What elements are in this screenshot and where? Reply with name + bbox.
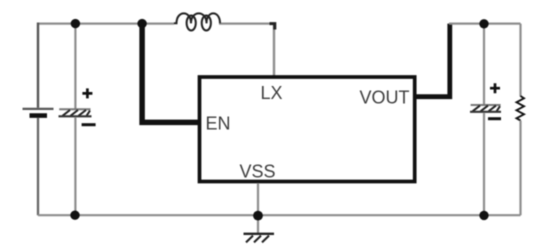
- wire right vertical lower: [519, 121, 521, 216]
- wire corner elbow at LX riser: [270, 24, 275, 30]
- battery BT1 long plate (+): [23, 108, 54, 110]
- ground hatches: [246, 236, 269, 243]
- wire LX riser: [273, 23, 275, 77]
- capacitor CL hatched plate: [473, 106, 501, 112]
- wire top rail left (VIN to inductor): [38, 23, 174, 25]
- wire EN thick (VIN to EN pin): [142, 25, 199, 122]
- svg-text:VSS: VSS: [240, 162, 276, 182]
- svg-text:EN: EN: [206, 114, 231, 134]
- node GND junction dot left: [70, 211, 79, 220]
- resistor RL zigzag: [517, 96, 525, 121]
- wire top rail right: [449, 23, 521, 25]
- wire inductor to LX corner: [219, 23, 275, 25]
- wire battery bottom lead: [37, 118, 39, 215]
- node GND junction dot right: [479, 211, 488, 220]
- battery BT1 short thick plate (-): [30, 113, 48, 118]
- wire output cap top lead: [483, 24, 485, 105]
- capacitor CL plus sign: [490, 83, 500, 93]
- capacitor CL minus sign: [488, 117, 501, 120]
- wire output cap bottom lead: [483, 113, 485, 216]
- wire VSS drop: [257, 183, 259, 233]
- inductor L1: [174, 13, 220, 30]
- ground bar: [244, 233, 275, 235]
- wire bottom rail: [38, 214, 521, 216]
- capacitor CIN bottom plate: [59, 115, 92, 117]
- node VIN junction dot at EN branch: [137, 19, 146, 28]
- node GND junction dot at VSS: [253, 211, 263, 221]
- capacitor CL bottom plate: [470, 111, 501, 113]
- wire input cap bottom lead: [74, 117, 76, 215]
- node VIN junction dot at battery/cap: [71, 19, 80, 28]
- svg-text:LX: LX: [261, 83, 283, 103]
- wire left vertical (battery top lead): [37, 23, 39, 108]
- wire input cap top lead: [74, 24, 76, 109]
- capacitor CIN hatched plate: [63, 110, 91, 116]
- wire right vertical upper (to resistor): [519, 24, 521, 97]
- node VOUT junction dot top: [479, 19, 488, 28]
- capacitor CL top plate: [471, 104, 501, 106]
- wire VOUT thick (VOUT pin to top rail): [414, 24, 450, 97]
- svg-text:VOUT: VOUT: [360, 88, 410, 108]
- capacitor CIN top plate: [59, 108, 90, 110]
- capacitor CIN plus sign: [82, 88, 92, 98]
- op-amp U1 block outline: [200, 77, 415, 182]
- capacitor CIN minus sign: [82, 123, 96, 126]
